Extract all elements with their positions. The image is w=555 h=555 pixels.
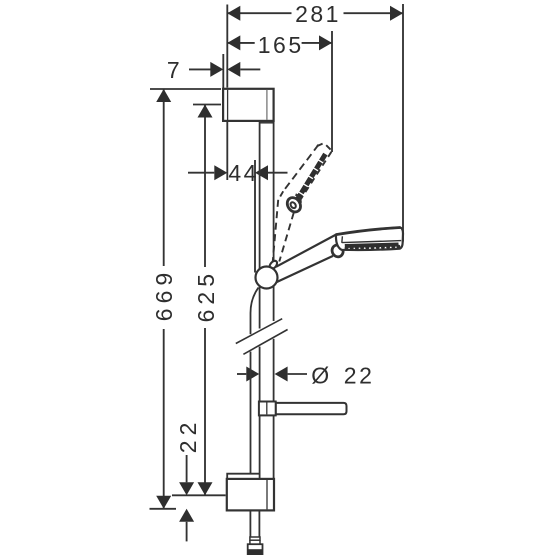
dimension 281 line [227,12,291,14]
handle lower line [276,256,333,282]
wall bracket top [223,89,274,121]
svg-text:22: 22 [344,363,375,389]
dimension 22 arrows [179,482,194,495]
soap dish clamp [259,402,276,416]
dimension 669 bottom extension [150,508,177,510]
hose curve from slider [251,288,259,314]
break symbol diagonals [236,319,282,344]
dimension 281 arrows [227,6,240,21]
dimension 625 line [204,105,206,268]
shower head body [336,228,403,251]
dashed cone pivot inner [289,201,296,209]
extension line dashed head x=332 [331,31,333,152]
dimension 669 line [163,89,165,266]
svg-text:281: 281 [295,1,341,27]
svg-text:165: 165 [258,32,304,58]
dimension 625/22 bottom extension [172,494,226,496]
dimension 22 line lower [186,522,188,542]
hose collar [250,537,260,540]
conical nut [248,544,263,555]
dashed head left edge [283,145,318,192]
dashed handle right edge [279,213,294,262]
svg-text:44: 44 [228,160,259,186]
solid hand shower [276,228,403,283]
rail left line [259,121,261,269]
bottom bracket [227,479,274,511]
spray nozzle band [345,245,399,247]
extension line wall plane lower segment [226,121,228,180]
extension line spray face x=403 [402,4,404,242]
dimension 625 top extension [193,104,221,106]
dashed head left corner [279,191,284,199]
dimension diameter 22 line [237,373,246,375]
dimension 22 line upper [186,455,188,482]
slider knob lever [268,259,278,270]
dashed cone top arc [296,195,301,204]
dimension 7 arrows [210,62,223,77]
dashed spray face band [298,154,326,199]
cone pivot [330,243,345,258]
handle upper line [276,235,336,267]
rail right line [273,121,275,262]
dashed handle left edge [273,200,278,261]
bottom bracket step [227,474,260,479]
dashed head right edge [299,152,331,202]
rail sleeve lip under bracket [260,122,274,124]
dimension 165 line [227,42,254,44]
dimension 44 line [188,172,214,174]
head top edge thick [336,228,400,235]
extension line bracket left x=223 [222,54,224,88]
head left inner line [341,236,344,243]
svg-text:Ø: Ø [311,363,331,389]
face line [342,241,401,243]
dashed head top tip [317,144,323,147]
svg-text:7: 7 [167,57,182,83]
dimension 44 extension x=255 [254,160,256,273]
dimension 44 arrows [214,165,227,180]
hose end below bracket [249,510,251,537]
dashed hand shower (raised position) [273,144,332,262]
dashed cone pivot outer [285,195,304,214]
extension line wall plane x=227 [226,5,228,88]
hose vertical line [250,313,252,334]
dimension 625 arrows [198,105,213,118]
dimension 7 line [189,68,211,70]
dimension 165 arrows [227,35,240,50]
svg-text:625: 625 [193,269,219,322]
dimension diameter 22 arrows [246,367,259,382]
svg-text:22: 22 [175,418,201,454]
nozzle bumps [345,245,401,251]
slider knob [256,267,278,289]
dimension 669 top extension [150,88,221,90]
dimension 669 arrows [156,89,171,102]
soap dish bar [276,403,347,414]
svg-text:669: 669 [151,268,177,321]
rail and objects [223,89,346,555]
